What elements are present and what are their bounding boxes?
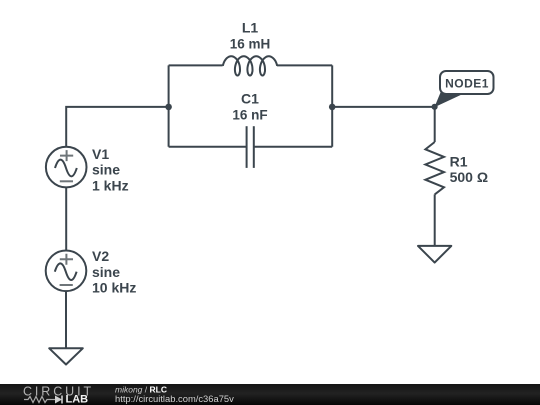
svg-text:LAB: LAB (66, 393, 89, 405)
resistor R1 (425, 142, 488, 194)
logo resistor squiggle (24, 397, 51, 403)
wire: top edge left of inductor (169, 64, 223, 66)
svg-text:V2: V2 (92, 248, 109, 264)
wire: V1 top vertical to horizontal bus (66, 107, 168, 147)
wire: R1 to ground (434, 194, 436, 246)
svg-text:http://circuitlab.com/c36a75v: http://circuitlab.com/c36a75v (115, 393, 234, 404)
node junction dot NODE1 (432, 104, 438, 110)
node label NODE1 (434, 71, 493, 107)
svg-text:sine: sine (92, 162, 120, 178)
ground under R1 (418, 246, 451, 263)
wire: top edge right of inductor (277, 64, 332, 66)
svg-text:NODE1: NODE1 (445, 77, 489, 91)
wire: V1 to V2 (65, 187, 67, 250)
svg-text:16 mH: 16 mH (230, 37, 271, 52)
svg-text:1 kHz: 1 kHz (92, 177, 129, 193)
wire: LC tank right edge (331, 65, 333, 146)
logo diode symbol (51, 399, 55, 401)
capacitor C1 (232, 91, 267, 168)
node junction dot left (165, 104, 172, 111)
ground under V2 (49, 348, 83, 364)
voltage source V1 (46, 146, 129, 193)
svg-text:10 kHz: 10 kHz (92, 280, 136, 296)
svg-text:C1: C1 (241, 91, 259, 107)
svg-text:R1: R1 (450, 154, 468, 170)
inductor L1 (223, 19, 277, 75)
svg-text:16 nF: 16 nF (232, 108, 267, 123)
wire: V2 to ground (65, 291, 67, 348)
voltage source V2 (46, 248, 137, 295)
svg-text:L1: L1 (242, 19, 259, 35)
wire: LC tank left edge (168, 65, 170, 146)
svg-text:sine: sine (92, 264, 120, 280)
wire: bottom edge right of capacitor (254, 146, 332, 148)
svg-text:V1: V1 (92, 146, 109, 162)
wire: right bus to node (332, 107, 435, 142)
node junction dot right (329, 104, 336, 111)
svg-text:500 Ω: 500 Ω (450, 169, 488, 185)
wire: bottom edge left of capacitor (169, 146, 247, 148)
